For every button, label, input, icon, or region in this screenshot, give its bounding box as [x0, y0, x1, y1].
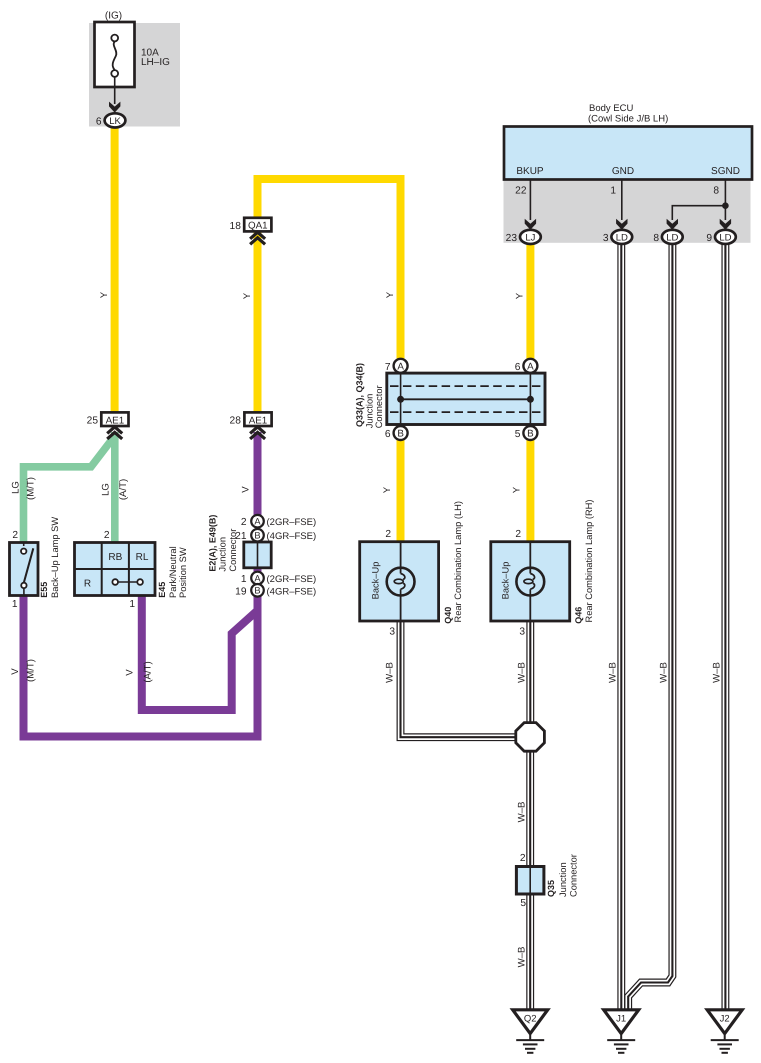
- switch E45 box: [75, 543, 156, 596]
- connector 18 QA1: [230, 218, 272, 232]
- pin 8 junction dot: [722, 202, 729, 209]
- E55 switch contacts: [21, 543, 33, 596]
- svg-text:22: 22: [515, 186, 527, 197]
- svg-text:Connector: Connector: [228, 529, 238, 572]
- svg-text:Park/Neutral: Park/Neutral: [168, 546, 178, 598]
- svg-text:2: 2: [12, 530, 18, 541]
- ECU connector gray band: [504, 180, 751, 243]
- svg-text:LK: LK: [109, 116, 121, 127]
- Q33 internal joint line: [401, 398, 531, 400]
- wire Y ECU LJ down to Q33 pin6: [526, 243, 534, 359]
- svg-text:2: 2: [104, 530, 110, 541]
- E45 grid lines: [75, 543, 156, 596]
- svg-text:1: 1: [129, 599, 135, 610]
- wire LG branch to E55: [24, 436, 115, 543]
- junction connector Q35 box: [516, 867, 544, 895]
- svg-text:Junction: Junction: [365, 394, 375, 429]
- svg-text:E45: E45: [157, 582, 167, 598]
- svg-text:Junction: Junction: [218, 537, 228, 572]
- svg-text:Back–Up Lamp SW: Back–Up Lamp SW: [50, 517, 60, 598]
- svg-text:Back–Up: Back–Up: [501, 562, 511, 600]
- svg-text:(2GR–FSE): (2GR–FSE): [267, 574, 317, 585]
- svg-text:LG: LG: [101, 483, 112, 496]
- wire W-B ECU pin8 LD to ground J1: [628, 242, 672, 1009]
- wire V AE1-28 down to E2 junction: [254, 432, 262, 516]
- wire Y fuse to AE1-25: [111, 127, 119, 414]
- svg-text:Connector: Connector: [568, 854, 578, 897]
- Q33 internal dashed bus lines: [390, 386, 542, 412]
- chevrons under AE1-28: [250, 427, 265, 439]
- svg-text:B: B: [254, 586, 260, 596]
- svg-text:8: 8: [713, 186, 719, 197]
- svg-text:2: 2: [241, 517, 247, 528]
- svg-text:V: V: [241, 486, 252, 493]
- lamp Q46 box: [491, 542, 570, 621]
- svg-text:A: A: [397, 361, 404, 372]
- svg-text:(M/T): (M/T): [26, 659, 37, 682]
- svg-text:5: 5: [520, 898, 526, 909]
- svg-text:2: 2: [515, 529, 521, 540]
- svg-text:LD: LD: [616, 233, 628, 244]
- svg-text:A: A: [254, 573, 261, 583]
- svg-text:B: B: [397, 429, 404, 440]
- svg-text:(A/T): (A/T): [143, 661, 154, 682]
- E2/E49 junction pin 2A: [241, 515, 316, 528]
- svg-text:A: A: [527, 361, 534, 372]
- svg-text:3: 3: [519, 627, 525, 638]
- Q35 internal divider: [529, 867, 531, 895]
- wire Y Q33 pin6B to Q40: [397, 440, 405, 543]
- svg-text:Y: Y: [99, 291, 110, 298]
- svg-text:LH–IG: LH–IG: [141, 57, 170, 68]
- svg-text:1: 1: [12, 599, 18, 610]
- svg-text:BKUP: BKUP: [516, 166, 544, 177]
- svg-text:1: 1: [241, 574, 247, 585]
- junction octagon node: [516, 723, 545, 752]
- wire W-B Q46 pin3 to junction octagon: [526, 621, 534, 724]
- Q33 pin 6B: [385, 426, 408, 440]
- svg-text:LJ: LJ: [525, 233, 535, 244]
- svg-text:(IG): (IG): [105, 11, 122, 22]
- ground J2: [707, 1010, 742, 1053]
- svg-text:1: 1: [610, 186, 616, 197]
- svg-text:W–B: W–B: [517, 662, 528, 683]
- wire fuse to terminal arrow: [114, 77, 116, 104]
- svg-text:3: 3: [389, 627, 395, 638]
- svg-text:7: 7: [385, 362, 391, 373]
- Q33 internal pass wires: [401, 372, 531, 427]
- connector 28 AE1: [230, 412, 272, 426]
- svg-text:RL: RL: [136, 552, 149, 563]
- Q46 bulb: [516, 542, 544, 621]
- Q33 pin 5B: [515, 426, 538, 440]
- svg-text:Q33(A), Q34(B): Q33(A), Q34(B): [355, 363, 365, 427]
- svg-text:28: 28: [230, 416, 242, 427]
- E2/E49 junction box: [244, 542, 271, 568]
- svg-text:(4GR–FSE): (4GR–FSE): [267, 586, 317, 597]
- svg-text:B: B: [254, 531, 260, 541]
- wire V stub between E2 box and pin1A: [254, 565, 262, 574]
- svg-text:5: 5: [515, 429, 521, 440]
- terminal arrow 9: [720, 219, 731, 230]
- svg-text:Rear Combination Lamp (RH): Rear Combination Lamp (RH): [584, 500, 594, 623]
- svg-text:W–B: W–B: [517, 802, 528, 823]
- terminal arrow 3: [616, 219, 627, 230]
- ground Q2: [513, 1010, 548, 1053]
- svg-text:A: A: [254, 517, 261, 527]
- wire W-B octagon through Q35 to ground Q2: [526, 750, 534, 1009]
- terminal 23 LJ oval: [506, 230, 541, 244]
- svg-text:AE1: AE1: [106, 415, 125, 426]
- svg-text:Y: Y: [242, 292, 253, 299]
- ECU pin 22 wire: [529, 180, 531, 220]
- svg-text:2: 2: [385, 529, 391, 540]
- svg-text:(4GR–FSE): (4GR–FSE): [267, 531, 317, 542]
- svg-text:6: 6: [515, 362, 521, 373]
- connector 25 AE1: [87, 412, 129, 426]
- wire V E55 to E2 pin19B main run: [24, 594, 258, 737]
- pin 8 branch wire: [672, 206, 725, 220]
- svg-text:Q2: Q2: [524, 1014, 537, 1025]
- terminal 3 LD oval: [603, 230, 632, 244]
- svg-text:W–B: W–B: [385, 662, 396, 683]
- svg-text:GND: GND: [612, 166, 634, 177]
- svg-text:6: 6: [96, 117, 102, 128]
- lamp Q40 box: [360, 542, 439, 621]
- svg-text:18: 18: [230, 221, 242, 232]
- wire Y Q33 pin5B to Q46: [526, 440, 534, 543]
- ground J1: [604, 1010, 639, 1053]
- svg-text:E55: E55: [39, 582, 49, 598]
- svg-text:3: 3: [603, 233, 609, 244]
- svg-text:Q46: Q46: [573, 607, 583, 624]
- svg-text:2: 2: [520, 853, 526, 864]
- chevrons under AE1-25: [107, 427, 122, 439]
- svg-text:Q40: Q40: [443, 607, 453, 624]
- wire W-B ECU pin3 LD to ground J1: [617, 242, 625, 1009]
- svg-text:W–B: W–B: [517, 947, 528, 968]
- terminal arrow into LK: [109, 102, 120, 113]
- Q33 pin 6A: [515, 359, 538, 373]
- svg-text:V: V: [10, 668, 21, 675]
- svg-text:B: B: [527, 429, 534, 440]
- terminal arrow 8: [667, 219, 678, 230]
- terminal LK oval: [105, 113, 126, 127]
- svg-text:LD: LD: [666, 233, 678, 244]
- svg-text:(2GR–FSE): (2GR–FSE): [267, 517, 317, 528]
- ECU pin 8 wire: [724, 180, 726, 220]
- svg-text:6: 6: [385, 429, 391, 440]
- terminal 9 LD oval: [706, 230, 735, 244]
- svg-text:W–B: W–B: [712, 662, 723, 683]
- svg-text:W–B: W–B: [659, 662, 670, 683]
- svg-text:(Cowl Side J/B LH): (Cowl Side J/B LH): [588, 114, 668, 125]
- svg-text:Back–Up: Back–Up: [371, 562, 381, 600]
- svg-text:Y: Y: [382, 486, 393, 493]
- wire Y QA1 up and over to Q33 pin7: [258, 179, 401, 359]
- svg-text:RB: RB: [108, 552, 122, 563]
- svg-text:AE1: AE1: [249, 415, 268, 426]
- svg-text:Y: Y: [512, 486, 523, 493]
- svg-text:8: 8: [653, 233, 659, 244]
- svg-text:9: 9: [706, 233, 712, 244]
- svg-text:Rear Combination Lamp (LH): Rear Combination Lamp (LH): [453, 501, 463, 622]
- svg-text:Q35: Q35: [546, 880, 556, 897]
- svg-text:19: 19: [235, 586, 247, 597]
- svg-text:Connector: Connector: [374, 385, 384, 428]
- fuse block background: [89, 23, 180, 127]
- svg-text:E2(A), E49(B): E2(A), E49(B): [207, 515, 217, 572]
- junction connector Q33/Q34 box: [387, 373, 545, 424]
- terminal arrow 23: [525, 219, 536, 230]
- terminal 8 LD oval: [653, 230, 682, 244]
- svg-text:Body ECU: Body ECU: [589, 103, 633, 114]
- svg-text:(M/T): (M/T): [26, 477, 37, 500]
- svg-text:25: 25: [87, 416, 99, 427]
- svg-text:Y: Y: [385, 291, 396, 298]
- svg-text:Position SW: Position SW: [178, 547, 188, 598]
- fuse 10A LH-IG box: [95, 22, 135, 87]
- Q33 pin 7A: [385, 359, 408, 373]
- E2/E49 junction pin 19B: [235, 584, 316, 597]
- svg-text:(A/T): (A/T): [118, 479, 129, 500]
- fuse element symbol: [111, 35, 118, 77]
- wire W-B ECU pin9 LD to ground J2: [721, 242, 729, 1009]
- svg-text:Y: Y: [515, 292, 526, 299]
- Q40 bulb: [387, 542, 415, 621]
- E45 reverse contact: [112, 579, 143, 585]
- svg-text:23: 23: [506, 233, 518, 244]
- Body ECU box: [504, 127, 752, 180]
- E2/E49 junction pin 21B: [235, 529, 316, 542]
- wire Y QA1 down to AE1-28: [254, 231, 262, 414]
- wire V E45 branch to main run: [142, 594, 259, 710]
- svg-text:LG: LG: [11, 481, 22, 494]
- svg-text:R: R: [84, 579, 91, 590]
- svg-text:V: V: [125, 669, 136, 676]
- svg-text:SGND: SGND: [711, 166, 740, 177]
- wire W-B Q40 pin3 to junction octagon: [401, 621, 517, 737]
- svg-text:J2: J2: [720, 1014, 730, 1025]
- E2/E49 junction pin 1A: [241, 572, 316, 585]
- switch E55 box: [10, 543, 39, 596]
- svg-text:LD: LD: [719, 233, 731, 244]
- svg-text:Junction: Junction: [558, 862, 568, 897]
- svg-text:W–B: W–B: [608, 662, 619, 683]
- chevrons under QA1: [250, 232, 265, 244]
- svg-text:QA1: QA1: [248, 221, 268, 232]
- wire LG AE1-25 to E45: [111, 432, 119, 543]
- ECU pin 1 wire: [621, 180, 623, 220]
- svg-text:J1: J1: [616, 1014, 626, 1025]
